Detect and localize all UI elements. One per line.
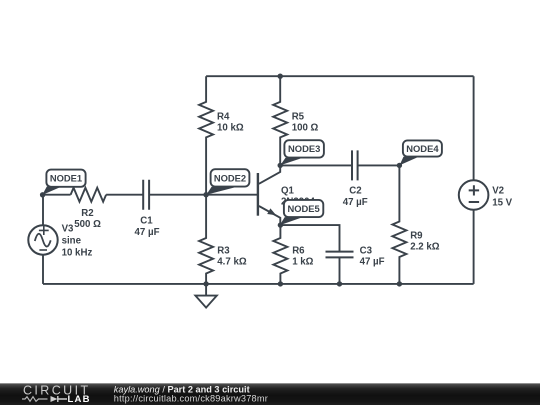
node dot node3: [278, 163, 283, 168]
svg-text:Q1: Q1: [281, 185, 295, 196]
wire C1 to Q1 base through node2: [149, 194, 258, 196]
svg-text:C1: C1: [140, 216, 153, 227]
component value labels: [62, 111, 513, 267]
svg-text:10 kHz: 10 kHz: [62, 247, 93, 258]
svg-text:500 Ω: 500 Ω: [74, 219, 101, 230]
svg-text:47 µF: 47 µF: [135, 227, 160, 238]
svg-text:V3: V3: [62, 223, 74, 234]
logo diode: [51, 396, 58, 402]
node dot top rail R5: [278, 74, 283, 79]
svg-text:10 kΩ: 10 kΩ: [217, 123, 244, 134]
node NODE5: [280, 200, 324, 225]
svg-text:LAB: LAB: [68, 394, 91, 405]
svg-text:NODE3: NODE3: [288, 143, 320, 154]
svg-text:100 Ω: 100 Ω: [292, 123, 319, 134]
node NODE2: [206, 169, 249, 195]
logo resistor zigzag: [22, 397, 48, 402]
voltage source V3 circle: [28, 225, 57, 254]
wire V2 bottom lead: [473, 210, 475, 284]
transistor Q1 base bar: [257, 173, 259, 216]
node dot node1: [40, 192, 45, 197]
wire bottom rail: [43, 283, 474, 285]
node label flags: [42, 140, 442, 225]
svg-text:C3: C3: [360, 246, 373, 257]
svg-text:2.2 kΩ: 2.2 kΩ: [410, 241, 440, 252]
V2 plus: [469, 185, 479, 195]
capacitor C3: [326, 252, 354, 258]
transistor Q1 emitter lead: [259, 206, 280, 225]
resistor R5: [273, 76, 287, 165]
svg-text:NODE5: NODE5: [287, 203, 319, 214]
svg-text:R9: R9: [410, 230, 423, 241]
svg-text:R2: R2: [81, 208, 93, 219]
wire node5 to C3: [280, 225, 339, 252]
node dot node2: [203, 192, 208, 197]
svg-text:R4: R4: [217, 111, 230, 122]
svg-text:15 V: 15 V: [492, 197, 512, 208]
svg-text:4.7 kΩ: 4.7 kΩ: [217, 257, 247, 268]
transistor Q1 collector lead: [259, 165, 280, 183]
svg-text:47 µF: 47 µF: [360, 257, 385, 268]
node dot ground: [203, 281, 208, 286]
wire V3 top lead: [42, 195, 44, 226]
V3 plus: [39, 226, 49, 235]
svg-text:NODE4: NODE4: [406, 143, 439, 154]
resistor R2: [71, 188, 107, 202]
svg-text:http://circuitlab.com/ck89akrw: http://circuitlab.com/ck89akrw378mr: [114, 393, 268, 403]
capacitor C2: [352, 150, 358, 180]
node NODE1: [42, 170, 85, 195]
svg-text:NODE2: NODE2: [214, 172, 246, 183]
svg-text:R6: R6: [292, 246, 305, 257]
V2 minus: [469, 201, 479, 203]
svg-text:C2: C2: [349, 185, 361, 196]
wire V3 bottom lead: [42, 255, 44, 284]
wire node1 to R2: [43, 194, 71, 196]
svg-text:R3: R3: [217, 246, 230, 257]
node NODE3: [280, 140, 324, 165]
svg-text:47 µF: 47 µF: [343, 197, 368, 208]
node dot C3 bottom: [337, 281, 342, 286]
node dot R9 bottom: [397, 281, 402, 286]
node dot node5: [278, 222, 283, 227]
wire V2 top lead: [473, 76, 475, 180]
resistor R6: [273, 225, 287, 284]
capacitor C1: [143, 180, 149, 210]
wire C3 to bottom rail: [339, 257, 341, 284]
resistor R3: [199, 195, 213, 284]
resistor R9: [392, 165, 406, 284]
node NODE4: [400, 140, 442, 165]
svg-text:R5: R5: [292, 111, 305, 122]
Q1 emitter arrow: [267, 208, 276, 215]
resistor R4: [199, 76, 213, 195]
wire top rail: [206, 75, 474, 77]
node dot node4: [397, 163, 402, 168]
V3 sine: [35, 234, 51, 247]
ground: [195, 284, 216, 308]
wire node3 to C2: [280, 164, 352, 166]
wire R2 to C1: [106, 194, 143, 196]
node dot R6 bottom: [278, 281, 283, 286]
svg-text:1 kΩ: 1 kΩ: [292, 257, 313, 268]
svg-text:V2: V2: [492, 185, 504, 196]
svg-text:NODE1: NODE1: [50, 173, 82, 184]
wire C2 to node4: [358, 164, 400, 166]
footer bar: [0, 383, 540, 405]
voltage source V2 circle: [459, 180, 489, 210]
V3 minus: [39, 249, 47, 251]
svg-text:sine: sine: [62, 236, 82, 247]
